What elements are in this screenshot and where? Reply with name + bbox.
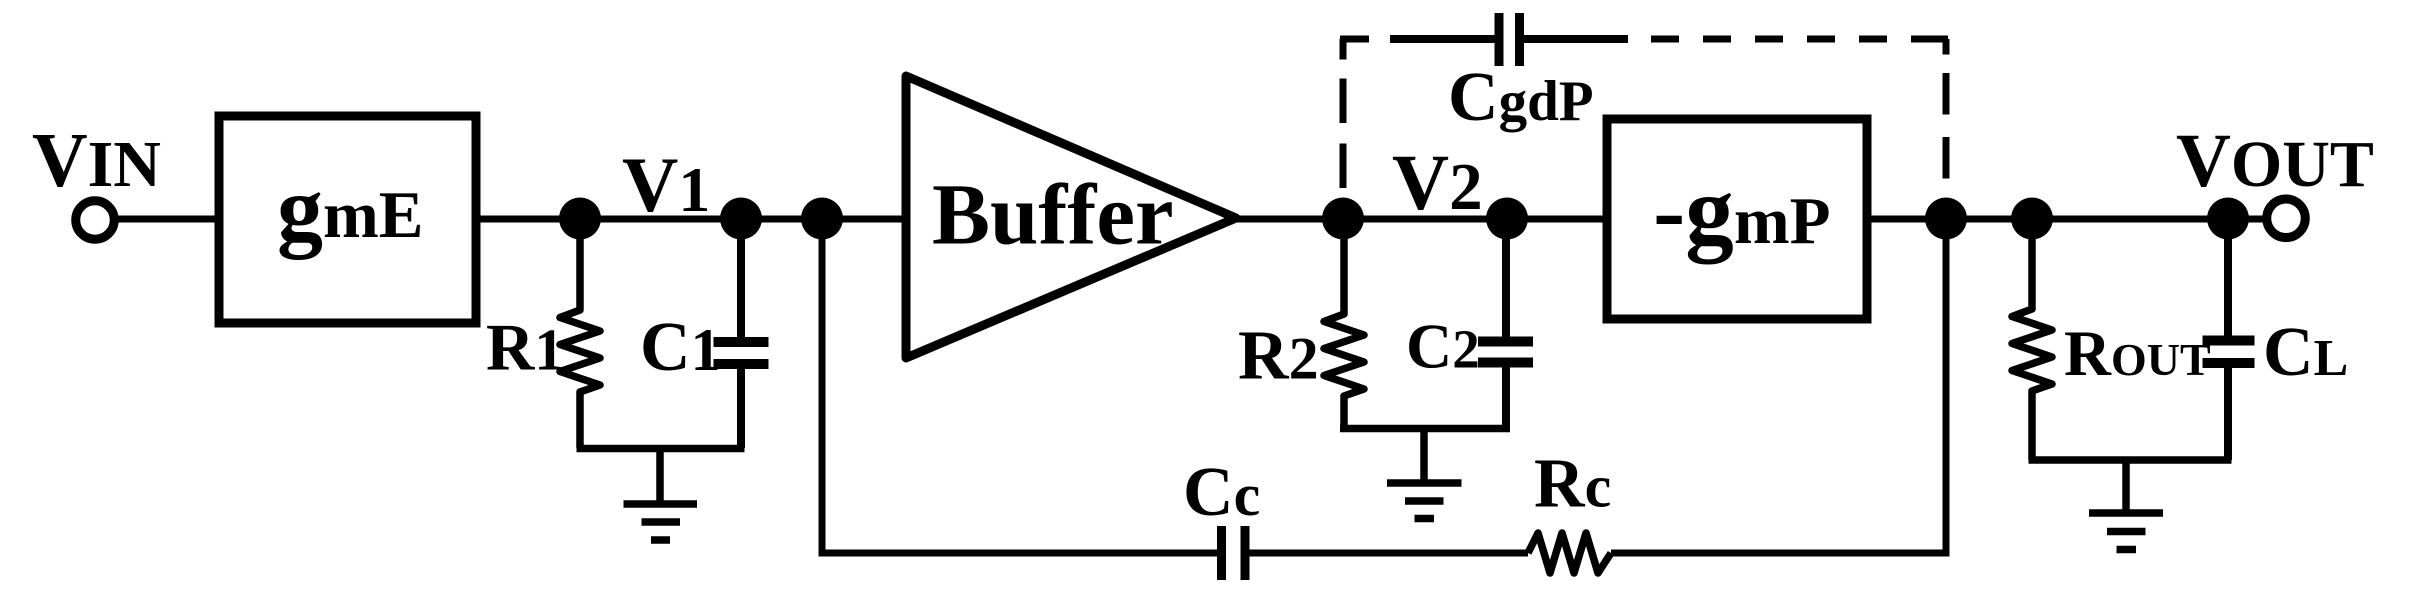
wire R2-C2 bottom: [1340, 425, 1510, 433]
svg-text:C2: C2: [1406, 311, 1480, 382]
svg-text:CgdP: CgdP: [1448, 59, 1594, 136]
capacitor CgdP plates: [1499, 13, 1520, 66]
node dot output left: [1925, 198, 1967, 240]
resistor R2: [1324, 219, 1364, 429]
svg-text:VIN: VIN: [32, 117, 161, 203]
node dot CL tap: [2207, 198, 2249, 240]
ground (R1/C1): [624, 448, 698, 540]
svg-text:ROUT: ROUT: [2064, 318, 2211, 390]
terminal VIN: [76, 201, 115, 240]
wire ROUT-CL bottom: [2029, 456, 2232, 464]
block gmE: [219, 116, 476, 323]
svg-text:R1: R1: [486, 311, 564, 385]
node dot V2 left: [1322, 198, 1364, 240]
svg-text:CL: CL: [2263, 314, 2348, 391]
wire Buffer to -gmP (node V2 segment): [1230, 216, 1612, 223]
wire R1-C1 bottom: [577, 445, 745, 453]
capacitor Cc: [1222, 526, 1246, 580]
resistor ROUT: [2012, 219, 2052, 460]
svg-text:V2: V2: [1392, 140, 1483, 227]
svg-text:C1: C1: [640, 309, 721, 386]
ground (ROUT/CL): [2089, 460, 2163, 550]
resistor R1: [560, 219, 600, 448]
wire bottom rail right + riser: [1611, 219, 1946, 553]
wire Cc riser + bottom rail left: [822, 219, 1218, 553]
node dot V2 right (C2 tap): [1486, 198, 1528, 240]
terminal VOUT: [2267, 199, 2306, 238]
wire gmE to Buffer (node V1 segment): [472, 216, 910, 223]
svg-text:Rc: Rc: [1534, 446, 1611, 523]
svg-text:VOUT: VOUT: [2176, 119, 2374, 203]
node dot ROUT tap: [2011, 198, 2053, 240]
dashed box CgdP right side: [1943, 39, 1950, 55]
capacitor C1: [714, 219, 769, 448]
wire -gmP to VOUT: [1862, 216, 2270, 223]
dashed box CgdP top: [1340, 36, 1369, 43]
wire VIN to gmE: [110, 216, 224, 223]
wire bottom rail middle: [1249, 550, 1528, 557]
capacitor C2: [1478, 219, 1533, 429]
svg-text:R2: R2: [1238, 318, 1319, 395]
node dot Cc junction: [801, 198, 843, 240]
capacitor CL: [2203, 219, 2255, 460]
node dot V1 left (R1 tap): [559, 198, 601, 240]
ground (R2/C2): [1387, 428, 1462, 519]
svg-text:Cc: Cc: [1183, 454, 1260, 531]
svg-text:Buffer: Buffer: [932, 166, 1174, 263]
capacitor CgdP leads: [1390, 35, 1628, 43]
op-amp Buffer: [906, 76, 1236, 358]
dashed box CgdP left side: [1340, 39, 1347, 60]
block -gmP: [1607, 119, 1867, 319]
node dot V1 right (C1 tap): [720, 198, 762, 240]
svg-text:V1: V1: [622, 141, 710, 228]
resistor Rc: [1528, 533, 1611, 573]
